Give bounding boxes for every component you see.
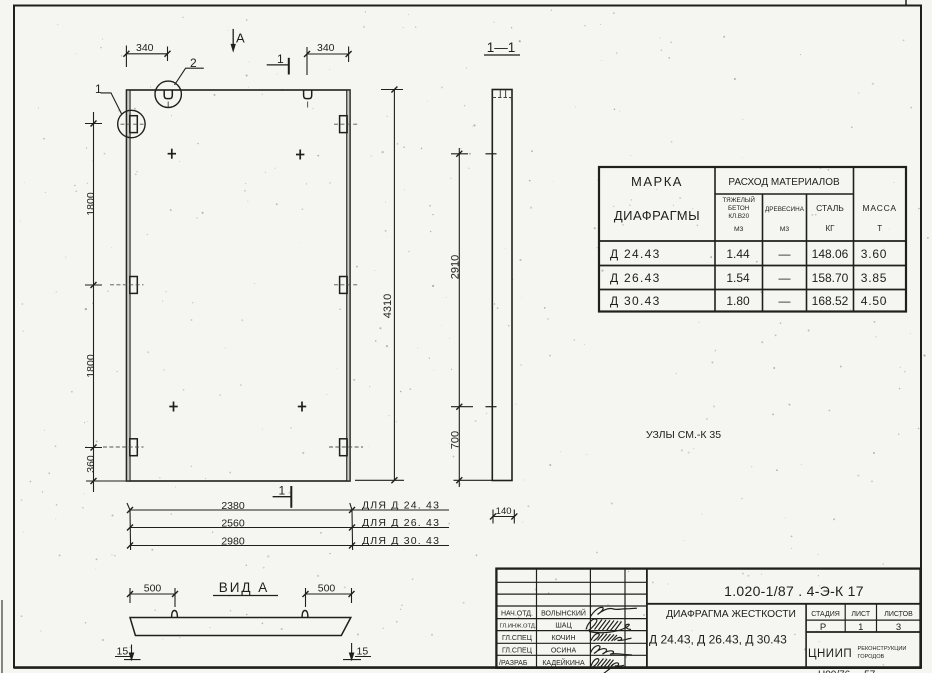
svg-text:КЛ.В20: КЛ.В20	[728, 213, 749, 220]
svg-text:—: —	[779, 247, 791, 261]
section mark 1 (top)	[267, 58, 289, 75]
svg-text:КОЧИН: КОЧИН	[551, 635, 575, 642]
svg-text:15: 15	[117, 646, 129, 658]
loop left dashed tail	[167, 102, 169, 108]
view A body (trapezoid)	[130, 618, 351, 636]
dim line 2380	[130, 509, 449, 511]
svg-text:УЗЛЫ СМ.-К 35: УЗЛЫ СМ.-К 35	[646, 429, 721, 441]
view A loop right	[302, 611, 308, 618]
svg-text:3.85: 3.85	[861, 271, 888, 285]
svg-text:500: 500	[144, 583, 162, 595]
svg-text:МАРКА: МАРКА	[631, 174, 683, 189]
detail circle 1	[118, 110, 145, 137]
table outer	[599, 167, 906, 312]
svg-text:15: 15	[357, 646, 369, 658]
signature 4	[591, 646, 633, 655]
dimension 340 right	[304, 47, 352, 76]
svg-text:340: 340	[317, 42, 335, 54]
svg-text:1.80: 1.80	[726, 294, 750, 308]
embedded plate M1 top-left	[130, 116, 138, 133]
svg-text:Р: Р	[820, 622, 826, 633]
lifting loop right on top edge	[304, 90, 312, 99]
title block rows left	[496, 581, 647, 583]
svg-text:ТЯЖЕЛЫЙ: ТЯЖЕЛЫЙ	[722, 195, 755, 204]
svg-text:1.44: 1.44	[726, 247, 750, 261]
lifting loop left on top edge	[164, 90, 172, 99]
svg-text:КГ: КГ	[826, 224, 836, 233]
svg-text:М3: М3	[780, 226, 790, 233]
table row line rashod header	[715, 193, 854, 195]
title block col 2	[589, 569, 591, 668]
svg-text:ГЛ.СПЕЦ: ГЛ.СПЕЦ	[502, 635, 533, 642]
section level mark upper	[486, 153, 497, 155]
title block col 4 main divider	[646, 569, 648, 668]
svg-text:КАДЕЙКИНА: КАДЕЙКИНА	[542, 658, 585, 667]
plate M3 centerline	[103, 446, 144, 448]
panel left edge inner line	[129, 90, 131, 481]
svg-text:—: —	[779, 271, 791, 285]
detail 2 leader	[175, 68, 204, 85]
title block col 1	[536, 569, 538, 668]
section body	[492, 90, 512, 481]
table col line marka	[714, 167, 716, 312]
loop right dashed tail	[307, 102, 309, 108]
svg-text:360: 360	[85, 455, 97, 473]
svg-text:3.60: 3.60	[861, 247, 888, 261]
svg-text:ДРЕВЕСИНА: ДРЕВЕСИНА	[765, 206, 805, 213]
plate M4 centerline	[334, 123, 358, 125]
svg-text:ГЛ.ИНЖ.ОТД.: ГЛ.ИНЖ.ОТД.	[500, 624, 537, 630]
svg-text:500: 500	[318, 583, 336, 595]
svg-text:СТАЛЬ: СТАЛЬ	[816, 203, 844, 213]
embedded plate M3 bottom-left	[130, 439, 138, 456]
svg-text:2980: 2980	[221, 536, 245, 548]
extension line mid	[350, 503, 352, 510]
embedded plate M2 mid-left	[130, 277, 138, 294]
svg-text:Д 24.43: Д 24.43	[610, 247, 661, 261]
plate M2 centerline	[110, 284, 144, 286]
table row line 2	[599, 289, 906, 291]
panel left edge hatch strip	[127, 91, 130, 481]
title block stadia divider	[805, 604, 807, 668]
signature 3	[591, 634, 632, 642]
dimension 140	[490, 510, 517, 524]
svg-text:1.54: 1.54	[726, 271, 750, 285]
embedded plate M6 bottom-right	[340, 439, 348, 456]
svg-text:РЕКОНСТРУКЦИИ: РЕКОНСТРУКЦИИ	[858, 646, 907, 652]
cross mark bottom-left	[169, 402, 177, 412]
svg-text:340: 340	[136, 42, 154, 54]
svg-text:/РАЗРАБ: /РАЗРАБ	[499, 660, 528, 667]
svg-text:A: A	[236, 31, 245, 46]
table col line beton/drevesina	[762, 194, 764, 312]
svg-text:1.020-1/87 . 4-Э-К 17: 1.020-1/87 . 4-Э-К 17	[724, 583, 864, 599]
section level mark lower	[486, 406, 497, 408]
svg-text:СТАДИЯ: СТАДИЯ	[811, 611, 840, 618]
scan left edge line	[1, 600, 3, 673]
svg-text:М3: М3	[734, 226, 744, 233]
dim line 2980	[130, 545, 449, 547]
svg-text:ВИД А: ВИД А	[219, 580, 270, 595]
svg-text:ШАЦ: ШАЦ	[555, 623, 572, 630]
svg-text:700: 700	[450, 431, 462, 449]
svg-text:НАЧ.ОТД.: НАЧ.ОТД.	[501, 611, 533, 618]
section bottom extension	[454, 479, 493, 481]
svg-text:1: 1	[95, 82, 102, 96]
section top notch dashed	[493, 90, 512, 98]
svg-text:ДЛЯ Д 26. 43: ДЛЯ Д 26. 43	[362, 517, 440, 529]
svg-text:2380: 2380	[221, 500, 245, 512]
svg-text:МАССА: МАССА	[863, 203, 897, 213]
svg-text:РАСХОД МАТЕРИАЛОВ: РАСХОД МАТЕРИАЛОВ	[728, 177, 840, 188]
panel right edge hatch strip	[347, 91, 350, 481]
left dimension chain line	[85, 112, 128, 492]
svg-text:Т: Т	[877, 224, 882, 233]
tick marks	[127, 507, 133, 513]
svg-text:ДИАФРАГМА ЖЕСТКОСТИ: ДИАФРАГМА ЖЕСТКОСТИ	[666, 609, 796, 620]
svg-text:3: 3	[896, 622, 901, 633]
view A loop left	[172, 611, 178, 618]
svg-text:4310: 4310	[382, 294, 394, 318]
frame top stub	[905, 0, 907, 6]
svg-text:1: 1	[279, 484, 286, 498]
table row line header bottom	[599, 240, 906, 242]
svg-text:1800: 1800	[85, 354, 97, 378]
dimension 500 right	[303, 588, 355, 607]
signature 1	[591, 607, 638, 616]
svg-text:4.50: 4.50	[861, 294, 888, 308]
svg-text:148.06: 148.06	[812, 247, 849, 261]
svg-text:1—1: 1—1	[487, 40, 516, 55]
view arrow A	[231, 29, 235, 51]
svg-text:Н00/76 57: Н00/76 57	[818, 670, 876, 673]
detail circle 2	[155, 81, 181, 107]
embedded plate M4 top-right	[340, 116, 348, 133]
table col line drevesina/stal	[806, 194, 808, 312]
section mark 1 (bottom)	[273, 486, 292, 508]
signature 2	[586, 619, 631, 633]
embedded plate M5 mid-right	[340, 277, 348, 294]
plate M5 centerline	[334, 284, 358, 286]
title block line under doc number	[647, 603, 921, 605]
cross mark top-right	[296, 150, 304, 160]
svg-text:ЛИСТ: ЛИСТ	[851, 611, 870, 618]
dimension 500 left	[127, 588, 178, 607]
svg-text:140: 140	[496, 506, 512, 517]
svg-text:Д 30.43: Д 30.43	[610, 294, 661, 308]
svg-text:ДЛЯ Д 24. 43: ДЛЯ Д 24. 43	[362, 500, 440, 512]
svg-text:—: —	[779, 294, 791, 308]
dimension 4310	[355, 87, 404, 484]
extension line left	[127, 503, 130, 510]
cross mark bottom-right	[298, 402, 306, 412]
cross mark top-left	[168, 149, 176, 159]
title block col 3	[624, 569, 626, 668]
svg-text:ДЛЯ Д 30. 43: ДЛЯ Д 30. 43	[362, 535, 440, 547]
table row line 1	[599, 265, 906, 267]
svg-text:ВОЛЫНСКИЙ: ВОЛЫНСКИЙ	[541, 609, 586, 618]
svg-text:БЕТОН: БЕТОН	[728, 205, 750, 212]
signature 5	[591, 659, 624, 673]
svg-text:158.70: 158.70	[812, 271, 849, 285]
svg-text:ГОРОДОВ: ГОРОДОВ	[858, 654, 885, 660]
panel outline	[127, 90, 351, 481]
svg-text:Д 26.43: Д 26.43	[610, 271, 661, 285]
plate M1 centerline	[121, 123, 144, 125]
svg-text:ДИАФРАГМЫ: ДИАФРАГМЫ	[614, 208, 700, 223]
title block outer	[496, 569, 920, 668]
svg-text:1800: 1800	[85, 192, 97, 216]
section dimension chain	[451, 148, 473, 487]
svg-text:ОСИНА: ОСИНА	[551, 647, 577, 654]
frame bottom emphasis	[14, 666, 921, 669]
table col line stal/massa	[853, 167, 855, 312]
dim line 2560	[130, 527, 449, 529]
svg-text:2: 2	[190, 56, 197, 70]
svg-text:2560: 2560	[221, 518, 245, 530]
svg-text:1: 1	[277, 52, 284, 66]
plate M6 centerline	[329, 446, 363, 448]
svg-text:ГЛ.СПЕЦ: ГЛ.СПЕЦ	[502, 647, 533, 654]
section heading underline	[484, 54, 520, 56]
panel right edge inner line	[346, 90, 348, 481]
detail 1 leader	[101, 93, 122, 114]
svg-text:ЛИСТОВ: ЛИСТОВ	[884, 611, 913, 618]
svg-text:168.52: 168.52	[812, 294, 849, 308]
svg-text:1: 1	[858, 622, 863, 633]
svg-text:ЦНИИП: ЦНИИП	[808, 648, 852, 660]
dimension 340 left	[123, 46, 170, 68]
view A underline	[213, 595, 278, 597]
svg-text:2910: 2910	[450, 255, 462, 279]
svg-text:Д 24.43, Д 26.43, Д 30.43: Д 24.43, Д 26.43, Д 30.43	[649, 633, 787, 647]
